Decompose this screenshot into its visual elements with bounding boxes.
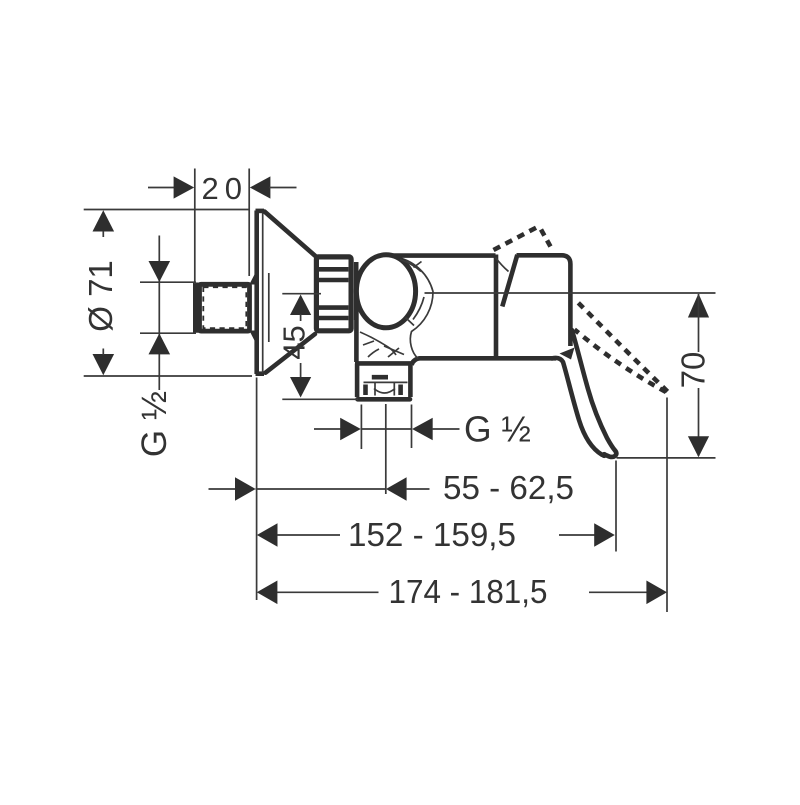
sphere hatch 4: [406, 318, 415, 326]
dashed lever up long: [494, 228, 537, 251]
row3 arrow right: [646, 581, 667, 605]
cone bottom slant: [266, 334, 316, 373]
dim 70 arrow down: [688, 436, 709, 457]
dim 45 arrow up: [290, 295, 311, 316]
outlet step: [355, 361, 411, 366]
row1 tail right: [406, 488, 430, 490]
casting detail stroke 1: [363, 341, 374, 345]
svg-text:55 - 62,5: 55 - 62,5: [443, 470, 574, 507]
svg-text:45: 45: [277, 325, 312, 359]
dim 70 arrow up: [688, 294, 709, 318]
escutcheon bottom edge: [256, 371, 265, 376]
dashed lever down lower curve: [575, 330, 667, 393]
row1 arrow right: [386, 477, 407, 501]
supply tick top: [140, 281, 196, 283]
pipe to plate wedge top: [249, 274, 255, 285]
outlet hex cap bar: [372, 375, 388, 380]
dim dia71 stub top: [102, 231, 104, 237]
outlet hex facet right: [393, 382, 395, 395]
dim 45 arrow down: [290, 377, 311, 398]
row2 ext right: [615, 461, 617, 552]
row2 line right: [559, 534, 595, 536]
cone top slant: [265, 212, 317, 258]
outlet hex facet left: [374, 382, 376, 395]
outlet left edge: [355, 364, 360, 398]
supply arrow up: [149, 333, 171, 354]
centerline: [425, 292, 716, 294]
row3 arrow left: [257, 581, 278, 605]
escutcheon top edge: [256, 209, 265, 214]
dim 20 ext right: [248, 169, 250, 277]
dashed lever up tip: [541, 230, 551, 248]
sphere ball: [356, 255, 415, 328]
supply dim line: [158, 236, 160, 391]
dim dia71 arrow down: [93, 354, 115, 375]
threaded nut: [316, 257, 351, 331]
outlet hex side right: [398, 385, 403, 396]
ghalf arrow left: [340, 418, 361, 440]
body top edge: [384, 253, 496, 258]
outlet hex bottom arc: [374, 389, 395, 394]
escutcheon face outer: [254, 211, 259, 375]
supply arrow down: [149, 261, 171, 282]
outlet hex top line: [364, 381, 408, 383]
handle base top and right edge: [517, 255, 571, 346]
lever tip bridge: [601, 452, 607, 458]
nut rib 4: [319, 316, 349, 321]
pipe to plate wedge bottom: [249, 331, 255, 342]
dim 70 line top: [698, 294, 700, 352]
casting detail X1: [384, 346, 404, 355]
dim 70 ext bottom: [617, 457, 716, 459]
escutcheon face second inner line: [268, 273, 270, 342]
rotation arrowhead: [560, 348, 575, 360]
row2 ext left: [256, 378, 258, 601]
nut rib 2: [319, 278, 349, 283]
svg-text:G ½: G ½: [464, 408, 531, 449]
dim 20 arrow left: [174, 176, 195, 198]
dim dia71 ext bottom: [84, 375, 252, 377]
dim 20 tail right: [269, 187, 297, 189]
outlet bottom edge: [358, 397, 411, 402]
outlet right edge: [408, 365, 413, 397]
row2 arrow left: [257, 523, 278, 547]
svg-text:70: 70: [675, 352, 712, 389]
row3 ext right: [666, 398, 668, 613]
row2 line left: [277, 534, 340, 536]
sphere left connector: [354, 310, 359, 362]
row1 tail left: [209, 488, 237, 490]
centerline tick left: [282, 293, 321, 295]
supply tick bottom: [140, 332, 196, 334]
body bottom fillet to outlet: [412, 358, 420, 365]
dim 45 tick bottom: [282, 398, 358, 400]
handle base left slant: [502, 255, 517, 307]
row3 line right: [589, 591, 647, 593]
body bottom edge: [419, 356, 556, 361]
row1 arrow left: [235, 477, 256, 501]
nut rib 3: [319, 305, 349, 310]
ghalf tail left: [314, 428, 341, 430]
casting detail X2: [388, 348, 399, 357]
ghalf tail right: [432, 428, 460, 430]
dim 70 line bottom: [698, 388, 700, 456]
supply square S-union: [200, 284, 250, 331]
svg-text:152 - 159,5: 152 - 159,5: [348, 517, 516, 554]
sphere hatch 1: [400, 260, 421, 272]
svg-text:174 - 181,5: 174 - 181,5: [389, 574, 548, 611]
casting detail wavy: [360, 332, 396, 355]
lever right edge and tip: [572, 330, 616, 457]
ghalf dim line: [361, 428, 411, 430]
ball flat left side: [354, 262, 359, 320]
svg-text:20: 20: [202, 171, 248, 206]
escutcheon face inner line: [262, 212, 264, 374]
outlet hex side left: [363, 385, 368, 396]
casting detail stroke 2: [368, 349, 379, 357]
dim dia71 arrow up: [93, 210, 115, 231]
row1 dim line: [256, 488, 386, 490]
dim 20 ext left: [194, 169, 196, 285]
sphere hatch 3: [413, 297, 424, 320]
sphere outer thin silhouette: [398, 258, 433, 359]
row2 arrow right: [594, 523, 615, 547]
dim dia71 stub bottom: [102, 349, 104, 356]
dim dia71 ext top: [84, 209, 249, 211]
ghalf ext center: [385, 404, 387, 494]
ghalf arrow right: [412, 418, 433, 440]
dashed lever down upper curve: [577, 302, 668, 392]
dim 20 arrow right: [250, 176, 271, 198]
supply square inner dashed: [203, 287, 246, 328]
ghalf ext right: [411, 405, 413, 449]
nut rib 1: [319, 267, 349, 272]
row3 line left: [277, 591, 379, 593]
lever left edge: [552, 358, 602, 455]
ghalf ext left: [360, 405, 362, 450]
dim 45 stub bottom: [300, 363, 302, 378]
body joint vertical: [494, 255, 499, 358]
dim 20 tail left: [148, 187, 175, 189]
svg-text:Ø 71: Ø 71: [82, 260, 119, 332]
svg-text:G ½: G ½: [135, 391, 174, 457]
handle base fillet arc: [496, 258, 509, 272]
sphere hatch 2: [414, 262, 422, 268]
dim 45 stub top: [300, 314, 302, 321]
